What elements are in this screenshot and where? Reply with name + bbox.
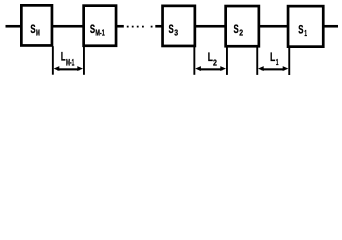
svg-text:S: S: [30, 22, 35, 36]
svg-text:L: L: [270, 50, 276, 64]
svg-text:M-1: M-1: [95, 28, 105, 38]
svg-text:2: 2: [239, 28, 243, 38]
svg-text:3: 3: [174, 28, 178, 38]
svg-text:S: S: [234, 22, 239, 36]
svg-text:S: S: [298, 22, 303, 36]
svg-text:M-1: M-1: [66, 57, 74, 67]
svg-text:1: 1: [304, 28, 307, 38]
svg-text:1: 1: [276, 57, 279, 67]
svg-text:M: M: [36, 28, 40, 38]
svg-text:S: S: [90, 22, 95, 36]
svg-text:2: 2: [213, 57, 217, 67]
svg-text:S: S: [169, 22, 174, 36]
